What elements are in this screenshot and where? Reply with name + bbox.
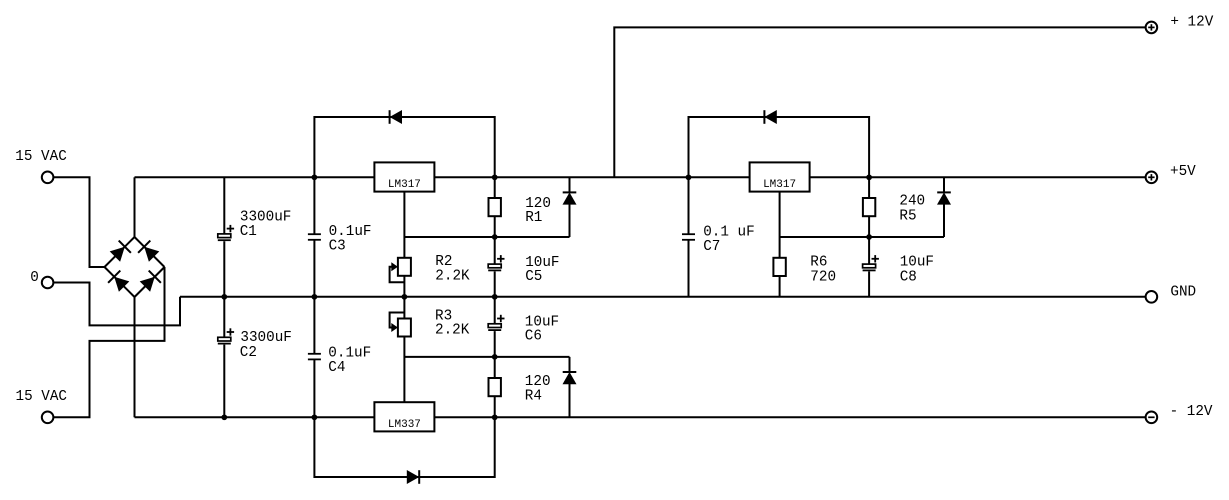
- svg-text:+5V: +5V: [1170, 164, 1196, 180]
- svg-text:240: 240: [899, 194, 925, 210]
- wire -raw/-12V rail: [135, 416, 1146, 418]
- svg-text:R6: R6: [810, 255, 827, 271]
- capacitor C1 3300uF: [223, 177, 225, 234]
- junction node C1/C2 on GND: [221, 294, 227, 300]
- trimmer R3 2.2K: [403, 297, 405, 319]
- junction node C4/D10 on - rail: [312, 414, 318, 420]
- junction node R1/D9 on + rail: [492, 174, 498, 180]
- junction node R2/R3 on GND: [402, 294, 408, 300]
- junction node C5/R1 on ADJ1: [492, 234, 498, 240]
- svg-text:C4: C4: [328, 360, 345, 376]
- wire X1 to bridge left corner: [53, 177, 104, 267]
- diode D1: [569, 177, 571, 192]
- bridge diode D7 (bottom to left): [108, 271, 120, 283]
- bridge edge bottom-right: [135, 267, 165, 297]
- svg-text:15 VAC: 15 VAC: [16, 389, 67, 405]
- trimmer R2 2.2K: [398, 258, 411, 276]
- wire U3 ADJ pin: [403, 337, 405, 403]
- junction node R5/D11 on + rail: [866, 174, 872, 180]
- svg-text:10uF: 10uF: [900, 255, 934, 271]
- wire bypass U1: [314, 117, 494, 177]
- capacitor C5 10uF: [494, 237, 496, 264]
- junction node R4/D10 on - rail: [492, 414, 498, 420]
- wire X2 to GND rail: [53, 283, 180, 326]
- svg-text:C7: C7: [703, 239, 720, 255]
- svg-text:C6: C6: [525, 329, 542, 345]
- wire bypass U3: [314, 417, 494, 477]
- wire bypass U2: [689, 117, 870, 177]
- capacitor C2 3300uF: [223, 297, 225, 338]
- terminal +12V: [1146, 22, 1158, 34]
- svg-text:C8: C8: [900, 269, 917, 285]
- diode D11 (U2 protection): [763, 110, 765, 124]
- terminal X2 0 (center tap input): [42, 277, 54, 289]
- terminal -12V: [1146, 412, 1158, 424]
- svg-text:2.2K: 2.2K: [435, 268, 470, 284]
- junction node C2 on - rail: [221, 414, 227, 420]
- bridge diode D5 (left to top): [119, 241, 131, 253]
- svg-text:LM317: LM317: [388, 179, 421, 191]
- svg-text:0.1uF: 0.1uF: [329, 224, 372, 240]
- svg-text:C5: C5: [525, 269, 542, 285]
- resistor R4 120: [494, 357, 496, 378]
- svg-text:R5: R5: [899, 208, 916, 224]
- svg-text:2.2K: 2.2K: [435, 322, 470, 338]
- diode D4: [943, 177, 945, 192]
- svg-text:120: 120: [525, 374, 551, 390]
- wire bridge top corner to + rail: [134, 177, 136, 237]
- junction node C3/C4 on GND: [312, 294, 318, 300]
- terminal X1 15 VAC (top input): [42, 172, 54, 184]
- wire GND rail: [180, 296, 1146, 298]
- svg-text:C3: C3: [329, 239, 346, 255]
- resistor R1 120: [494, 177, 496, 198]
- wire +12V feed: [614, 27, 1145, 177]
- wire X3 to bridge right corner: [53, 267, 164, 417]
- bridge edge top-left: [105, 237, 135, 267]
- capacitor C6 10uF: [494, 297, 496, 324]
- svg-text:LM317: LM317: [763, 179, 796, 191]
- bridge edge top-right: [135, 237, 165, 267]
- terminal GND: [1146, 291, 1158, 303]
- svg-text:GND: GND: [1170, 284, 1196, 300]
- diode D10 (U3 protection): [418, 470, 420, 484]
- svg-text:R4: R4: [525, 389, 542, 405]
- diode D2: [569, 357, 571, 372]
- junction node C6/R4 on ADJ2: [492, 354, 498, 360]
- op-amp/regulator U3 LM337: [374, 402, 434, 431]
- capacitor C8 10uF: [868, 237, 870, 264]
- svg-text:15 VAC: 15 VAC: [15, 149, 66, 165]
- bridge diode D6 (right to top): [138, 241, 150, 253]
- wire ADJ3 net: [780, 236, 944, 238]
- capacitor C3 0.1uF: [313, 177, 315, 234]
- svg-text:- 12V: - 12V: [1170, 404, 1213, 420]
- wire U1 ADJ pin: [403, 192, 405, 258]
- wire +raw/+5V rail: [135, 176, 1146, 178]
- op-amp/regulator U1 LM317: [374, 162, 434, 191]
- svg-text:3300uF: 3300uF: [240, 209, 291, 225]
- svg-text:0.1 uF: 0.1 uF: [703, 225, 754, 241]
- capacitor C4 0.1uF: [313, 297, 315, 354]
- svg-text:720: 720: [810, 269, 836, 285]
- bridge diode D8 (bottom to right): [149, 271, 161, 283]
- wire ADJ1 net: [404, 236, 569, 238]
- wire bridge bottom corner to - rail: [134, 297, 136, 417]
- svg-text:R1: R1: [525, 210, 542, 226]
- junction node C7/D11 on + rail: [686, 174, 692, 180]
- junction node C3/D9 on + rail: [312, 174, 318, 180]
- wire ADJ2 net: [404, 356, 569, 358]
- terminal X3 15 VAC (bottom input): [42, 412, 54, 424]
- op-amp/regulator U2 LM317: [750, 162, 810, 191]
- svg-text:C2: C2: [240, 345, 257, 361]
- capacitor C7 0.1uF: [688, 177, 690, 234]
- resistor R6 720: [773, 258, 785, 276]
- junction node C5/C6 on GND: [492, 294, 498, 300]
- bridge edge bottom-left: [105, 267, 135, 297]
- wire U2 ADJ pin: [779, 192, 781, 258]
- svg-text:LM337: LM337: [388, 419, 421, 431]
- resistor R5 240: [868, 177, 870, 198]
- junction node C8/R5 on ADJ3: [866, 234, 872, 240]
- terminal +5V: [1146, 172, 1158, 184]
- svg-text:3300uF: 3300uF: [240, 330, 291, 346]
- svg-text:+ 12V: + 12V: [1170, 14, 1213, 30]
- svg-text:0: 0: [30, 270, 39, 286]
- diode D9 (U1 protection): [389, 110, 391, 124]
- svg-text:C1: C1: [240, 224, 257, 240]
